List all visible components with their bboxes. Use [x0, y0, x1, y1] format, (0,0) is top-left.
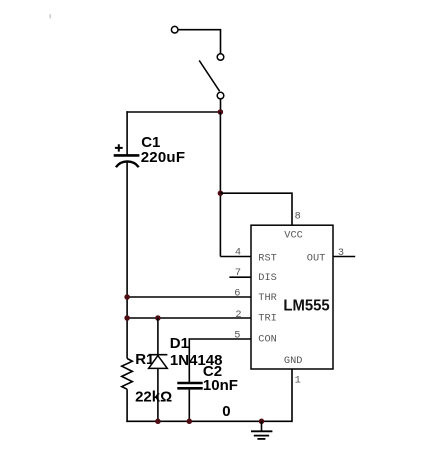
capacitor C2 lower wire — [188, 390, 190, 422]
junction THR on left rail — [124, 294, 130, 300]
wire left rail top segment — [126, 111, 128, 155]
svg-text:DIS: DIS — [258, 272, 277, 284]
svg-text:10nF: 10nF — [203, 377, 238, 394]
svg-text:D1: D1 — [170, 335, 189, 352]
switch S1 lever — [199, 60, 219, 91]
junction VCC branch — [218, 190, 224, 196]
svg-text:6: 6 — [234, 288, 240, 300]
wire switch left terminal to corner and down — [178, 30, 220, 54]
svg-text:VCC: VCC — [284, 229, 303, 241]
svg-text:220uF: 220uF — [141, 149, 185, 166]
wire top horizontal to C1 branch — [126, 111, 220, 113]
svg-text:2: 2 — [235, 309, 241, 321]
diode D1 lower wire — [157, 368, 159, 421]
ground bar 1 — [251, 430, 272, 432]
wire switch to node junction — [220, 99, 222, 112]
resistor R1 zigzag — [122, 359, 133, 390]
capacitor C1 curved plate — [116, 161, 139, 167]
svg-text:GND: GND — [284, 355, 303, 367]
diode D1 anode wire — [157, 318, 159, 356]
ground bar 3 — [257, 438, 265, 440]
diode D1 triangle — [149, 356, 168, 369]
wire THR pin 6 — [127, 296, 251, 298]
wire DIS stub pin 7 — [229, 276, 251, 278]
capacitor C1 top plate — [114, 154, 140, 157]
junction C2 bottom rail — [187, 419, 193, 425]
wire TRI pin 2 — [127, 317, 251, 319]
wire GND pin 1 — [126, 369, 292, 421]
switch S1 throw circle lower — [217, 92, 224, 99]
wire OUT pin 3 — [333, 256, 355, 258]
ground stub — [261, 421, 263, 431]
svg-text:RST: RST — [258, 252, 277, 264]
junction ground bottom rail — [259, 419, 265, 425]
junction top node — [218, 109, 224, 115]
svg-text:0: 0 — [222, 403, 230, 420]
svg-text:THR: THR — [258, 292, 277, 304]
capacitor C1 plus sign — [115, 144, 123, 151]
capacitor C2 bottom plate — [177, 387, 202, 390]
svg-text:CON: CON — [258, 334, 277, 346]
svg-text:8: 8 — [295, 211, 301, 223]
wire left rail bottom segment — [126, 389, 128, 422]
faint artifact mark top-left — [49, 14, 51, 18]
switch S1 terminal circle left — [171, 26, 178, 33]
IC U1 LM555 box — [251, 225, 333, 369]
junction TRI to D1 — [155, 315, 161, 321]
ground bar 2 — [254, 435, 269, 437]
switch S1 pole circle upper — [217, 54, 224, 61]
svg-text:22kΩ: 22kΩ — [135, 388, 172, 405]
wire right rail down to RST level — [219, 112, 221, 257]
capacitor C2 top plate — [177, 382, 202, 385]
diode D1 cathode bar — [149, 354, 168, 356]
svg-text:3: 3 — [338, 247, 344, 259]
svg-text:TRI: TRI — [258, 312, 277, 324]
svg-text:OUT: OUT — [307, 252, 326, 264]
svg-text:1: 1 — [295, 375, 301, 387]
wire RST pin 4 — [220, 256, 251, 258]
wire CON pin 5 — [189, 339, 251, 382]
junction D1 bottom rail — [155, 419, 161, 425]
wire left rail middle segment — [126, 162, 128, 358]
wire VCC branch to pin 8 — [220, 193, 292, 225]
svg-text:LM555: LM555 — [283, 298, 330, 315]
junction TRI on left rail — [124, 315, 130, 321]
